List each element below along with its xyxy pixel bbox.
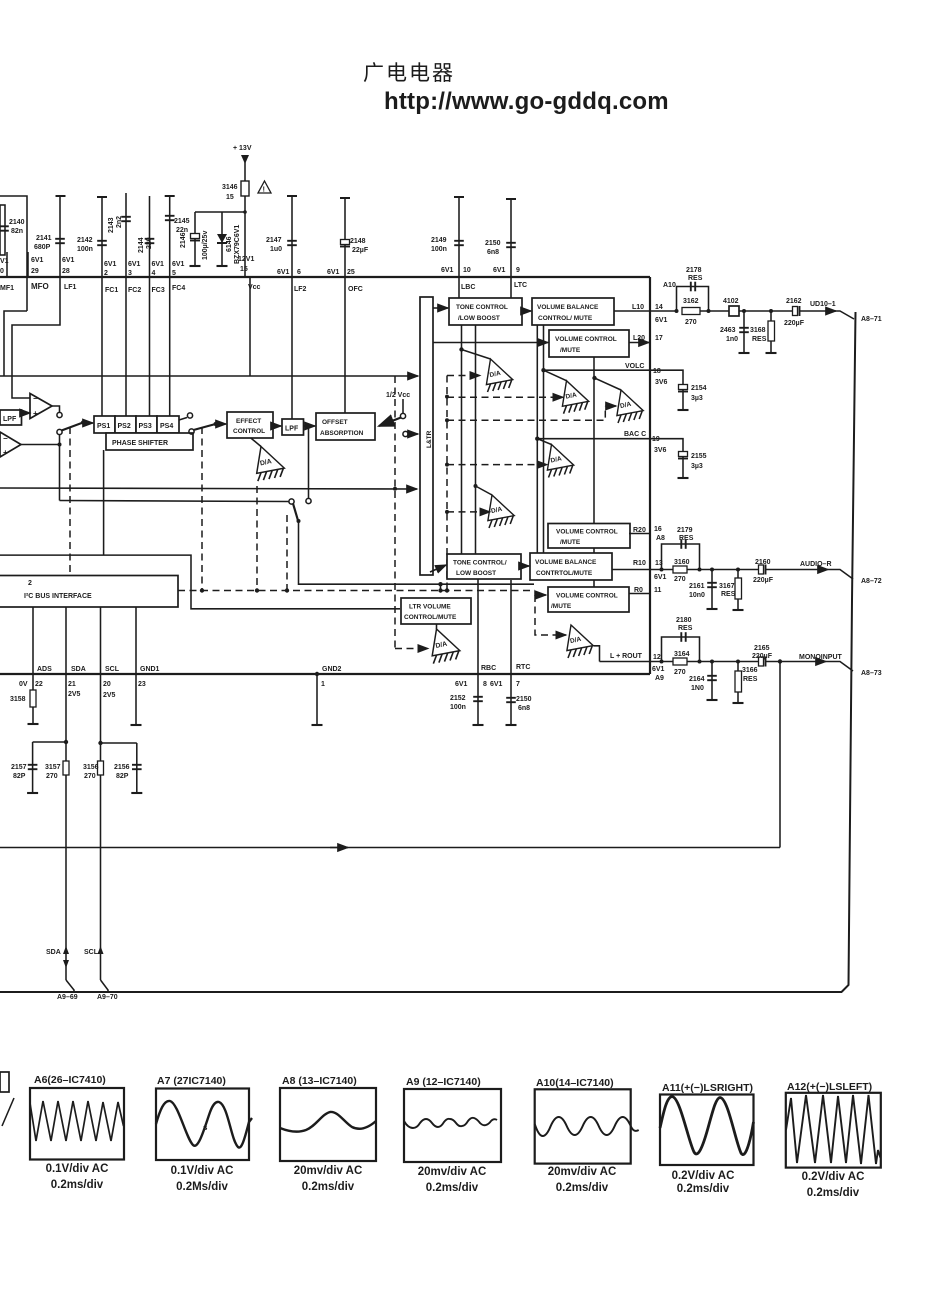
wire fc2 column to PS2 — [125, 277, 127, 416]
capacitor C2179 — [681, 539, 685, 549]
wire 2157 column — [32, 742, 34, 793]
svg-text:1n0: 1n0 — [726, 336, 738, 343]
svg-text:A8–73: A8–73 — [861, 670, 882, 677]
svg-text:0.2ms/div: 0.2ms/div — [556, 1182, 609, 1194]
matrix narrow box — [420, 297, 433, 575]
svg-text:6V1: 6V1 — [62, 257, 75, 264]
svg-text:CONTROL/ MUTE: CONTROL/ MUTE — [538, 315, 593, 322]
svg-text:RES: RES — [678, 625, 693, 632]
wire tee top 2150 — [506, 198, 516, 200]
ground gnd2 — [312, 724, 323, 726]
svg-text:0.1V/div AC: 0.1V/div AC — [171, 1165, 234, 1177]
sda arrows — [63, 946, 69, 954]
svg-text:3168: 3168 — [750, 327, 766, 334]
junction — [742, 309, 746, 313]
wire opamp2 out — [21, 444, 60, 446]
dashed vertical main — [446, 376, 448, 592]
svg-text:SDA: SDA — [71, 666, 86, 673]
junction — [445, 395, 449, 399]
svg-text:2179: 2179 — [677, 527, 693, 534]
wire fc3 column to PS3 — [149, 277, 151, 416]
svg-text:PHASE SHIFTER: PHASE SHIFTER — [112, 440, 168, 447]
scope A12 waveform triangle — [786, 1095, 881, 1164]
svg-text:3146: 3146 — [222, 184, 238, 191]
node pin2 column FC1 — [101, 197, 103, 277]
svg-text:680P: 680P — [34, 244, 51, 251]
svg-text:/MUTE: /MUTE — [551, 603, 572, 610]
svg-text:L10: L10 — [632, 304, 644, 311]
svg-text:VOLUME BALANCE: VOLUME BALANCE — [537, 304, 599, 311]
IC right edge — [649, 277, 651, 674]
svg-text:15: 15 — [226, 194, 234, 201]
wire to 4102 — [700, 310, 729, 312]
junction — [710, 568, 714, 572]
svg-text:6V1: 6V1 — [654, 574, 667, 581]
svg-text:3µ3: 3µ3 — [691, 463, 703, 470]
IC bottom edge — [0, 673, 650, 675]
capacitor C2146 electrolytic — [190, 234, 200, 241]
svg-text:2164: 2164 — [689, 676, 705, 683]
wire out UD10-1 — [800, 310, 836, 312]
capacitor C2142 — [97, 241, 107, 245]
left edge fragment slant — [2, 1098, 14, 1126]
svg-text:AUDIO–R: AUDIO–R — [800, 561, 832, 568]
svg-text:R20: R20 — [633, 527, 646, 534]
svg-text:6V1: 6V1 — [441, 267, 454, 274]
svg-text:2V5: 2V5 — [68, 691, 81, 698]
junction da2 — [541, 368, 545, 372]
wire scl column — [100, 607, 102, 980]
D/A 4 — [547, 445, 573, 478]
wire ps4 stub — [179, 418, 187, 421]
switch contact e — [306, 498, 311, 503]
node pin10 column LBC — [458, 197, 460, 277]
svg-text:A9: A9 — [655, 675, 664, 682]
svg-text:2162: 2162 — [786, 298, 802, 305]
svg-text:270: 270 — [46, 773, 58, 780]
svg-text:2143: 2143 — [108, 217, 115, 233]
switch lever 4 — [293, 504, 298, 521]
wire L+ROUT — [600, 661, 651, 663]
svg-text:OFC: OFC — [348, 286, 363, 293]
wire ofc col to offset — [344, 277, 346, 413]
svg-text:19: 19 — [652, 436, 660, 443]
svg-text:EFFECT: EFFECT — [236, 418, 261, 425]
svg-text:20: 20 — [103, 681, 111, 688]
svg-text:11: 11 — [654, 587, 662, 594]
junction — [660, 660, 664, 664]
svg-text:A7 (27IC7140): A7 (27IC7140) — [157, 1075, 226, 1087]
switch contact after PS4 — [187, 413, 192, 418]
node pin6 column LF2 — [291, 196, 293, 277]
svg-text:22µF: 22µF — [352, 247, 369, 254]
svg-text:9: 9 — [516, 267, 520, 274]
svg-text:2155: 2155 — [691, 453, 707, 460]
dashed into da7 — [395, 648, 428, 650]
svg-text:/MUTE: /MUTE — [560, 347, 581, 354]
wire effect to da6 — [251, 438, 261, 447]
feedback arrow — [330, 847, 348, 849]
wire down cap 2463 — [743, 311, 745, 353]
node pin29 column — [27, 252, 29, 277]
dashed into vc3 — [535, 591, 546, 596]
svg-text:2148: 2148 — [350, 238, 366, 245]
ground — [707, 699, 718, 701]
wire volc inside — [544, 369, 651, 371]
svg-text:A6(26–IC7410): A6(26–IC7410) — [34, 1074, 106, 1086]
junction — [736, 660, 740, 664]
wire contact d to matrix — [408, 433, 418, 435]
volume control mute box 2 — [548, 524, 630, 549]
wire lpf2 to offset — [304, 425, 316, 427]
wire parallel loop 2180 — [662, 637, 700, 662]
svg-text:82P: 82P — [13, 773, 26, 780]
svg-text:A11(+(−)LSRIGHT): A11(+(−)LSRIGHT) — [662, 1082, 753, 1094]
svg-text:FC3: FC3 — [152, 287, 165, 294]
wire vb2 to pin13 — [612, 569, 673, 571]
scope A9 box — [404, 1089, 501, 1162]
junction — [214, 422, 218, 426]
scl arrow — [98, 946, 104, 954]
wire parallel loop 2179 — [662, 544, 700, 570]
svg-text:MFO: MFO — [31, 282, 49, 291]
junction — [297, 519, 301, 523]
junction — [255, 588, 259, 592]
effect control box — [227, 412, 273, 438]
svg-text:2144: 2144 — [138, 237, 145, 253]
ground — [733, 702, 744, 704]
capacitor C2180 — [681, 632, 685, 642]
switch lever 2 — [194, 424, 216, 430]
wire down cap 2164 — [711, 662, 713, 701]
svg-text:LOW BOOST: LOW BOOST — [456, 570, 496, 577]
svg-text:3157: 3157 — [45, 764, 61, 771]
wire switch b down — [59, 435, 61, 501]
svg-text:L + ROUT: L + ROUT — [610, 653, 643, 660]
wire sda slant to bottom — [66, 980, 74, 992]
capacitor C2140 — [0, 226, 9, 230]
wire after loop — [687, 569, 758, 571]
svg-text:2141: 2141 — [36, 235, 52, 242]
capacitor C2141 — [55, 239, 65, 243]
svg-text:1/2 Vcc: 1/2 Vcc — [386, 392, 410, 399]
svg-text:82P: 82P — [116, 773, 129, 780]
svg-text:0.2V/div AC: 0.2V/div AC — [672, 1170, 735, 1182]
svg-text:RES: RES — [721, 591, 736, 598]
svg-text:LTR VOLUME: LTR VOLUME — [409, 604, 451, 611]
ground — [678, 477, 689, 479]
volume balance box 1 — [532, 298, 614, 325]
lpf box 1 — [0, 410, 22, 425]
wire rbc column — [477, 579, 479, 674]
svg-text:10: 10 — [463, 267, 471, 274]
junction — [778, 659, 782, 663]
wire tee top 2141 — [56, 195, 66, 197]
scope A10 box — [535, 1089, 631, 1163]
ground ads — [28, 723, 39, 725]
svg-text:/LOW BOOST: /LOW BOOST — [458, 315, 500, 322]
D/A 5 — [488, 495, 514, 528]
wire fc1 column to PS1 — [101, 277, 103, 416]
svg-text:14: 14 — [655, 304, 663, 311]
svg-text:6V1: 6V1 — [493, 267, 506, 274]
wire AR main vertical — [842, 312, 856, 992]
svg-text:3167: 3167 — [719, 583, 735, 590]
svg-text:3µ3: 3µ3 — [691, 395, 703, 402]
wire ltr to da7 — [436, 624, 438, 629]
junction — [698, 660, 702, 664]
capacitor C2140 box — [0, 205, 5, 255]
svg-text:2V5: 2V5 — [103, 692, 116, 699]
capacitor C2157 — [28, 765, 38, 769]
svg-text:A8: A8 — [656, 535, 665, 542]
svg-text:UD10–1: UD10–1 — [810, 301, 836, 308]
scope A9 waveform ripple — [404, 1118, 497, 1128]
svg-text:25: 25 — [347, 269, 355, 276]
svg-text:广电电器: 广电电器 — [363, 62, 455, 85]
I2C bus interface box — [0, 576, 178, 608]
svg-text:FC2: FC2 — [128, 287, 141, 294]
scope A10 waveform ripple — [535, 1117, 639, 1136]
svg-text:2149: 2149 — [431, 237, 447, 244]
wire half vcc stub — [402, 399, 404, 414]
svg-text:3162: 3162 — [683, 298, 699, 305]
ground 2156 — [131, 792, 142, 794]
svg-text:2145: 2145 — [174, 218, 190, 225]
svg-text:20mv/div AC: 20mv/div AC — [418, 1166, 487, 1178]
scope A7 waveform sine — [156, 1101, 252, 1148]
svg-text:7: 7 — [516, 681, 520, 688]
svg-text:270: 270 — [84, 773, 96, 780]
svg-text:I²C BUS INTERFACE: I²C BUS INTERFACE — [24, 593, 92, 600]
wire tee top 2147 — [287, 195, 297, 197]
svg-text:GND1: GND1 — [140, 666, 160, 673]
ground 2146 — [190, 265, 201, 267]
wire box top — [0, 196, 27, 311]
svg-text:100n: 100n — [450, 704, 466, 711]
wire scl slant to bottom — [101, 980, 109, 992]
scope A6 box — [30, 1088, 124, 1160]
svg-text:CONTROL: CONTROL — [233, 428, 265, 435]
capacitor C2152 — [473, 697, 483, 701]
phase shifter label box — [106, 433, 193, 450]
wire bottom long line — [0, 991, 842, 993]
svg-text:3166: 3166 — [742, 667, 758, 674]
junction — [769, 309, 773, 313]
svg-text:MONOINPUT: MONOINPUT — [799, 654, 843, 661]
svg-text:4102: 4102 — [723, 298, 739, 305]
svg-text:6V1: 6V1 — [652, 666, 665, 673]
svg-text:12: 12 — [653, 654, 661, 661]
svg-text:21: 21 — [68, 681, 76, 688]
dashed vertical left d — [286, 515, 288, 590]
ground gnd1 — [131, 724, 142, 726]
svg-text:BAC C: BAC C — [624, 431, 646, 438]
svg-text:!: ! — [263, 185, 266, 194]
junction — [445, 510, 449, 514]
wire lf1 column down to opamp — [12, 277, 60, 398]
svg-text:LF2: LF2 — [294, 286, 307, 293]
svg-text:SCL: SCL — [105, 666, 120, 673]
svg-text:LTC: LTC — [514, 282, 527, 289]
svg-text:220: 220 — [146, 237, 153, 249]
wire pin12 out — [650, 661, 673, 663]
svg-text:0.2ms/div: 0.2ms/div — [807, 1187, 860, 1199]
wire effect to lpf2 — [273, 425, 281, 427]
capacitor C2178 — [691, 282, 695, 292]
svg-text:PS3: PS3 — [139, 423, 152, 430]
wire long to switch2 — [60, 501, 290, 502]
wire matrix to vc1 — [433, 342, 548, 344]
scope A8 box — [280, 1088, 376, 1161]
wire ads stub — [32, 707, 34, 724]
capacitor C2145 — [165, 216, 175, 220]
svg-text:s: s — [203, 1123, 208, 1132]
ground rtc — [506, 724, 517, 726]
ltr volume box — [401, 598, 471, 624]
svg-text:RBC: RBC — [481, 665, 496, 672]
wire fc4 column to PS4 — [169, 277, 171, 416]
svg-text:2150: 2150 — [485, 240, 501, 247]
op-amp U2 — [0, 432, 21, 457]
offset absorption box — [316, 413, 375, 440]
svg-text:ABSORPTION: ABSORPTION — [320, 430, 364, 437]
svg-text:MF1: MF1 — [0, 285, 14, 292]
junction — [445, 463, 449, 467]
svg-text:23: 23 — [138, 681, 146, 688]
scope A7 box — [156, 1089, 249, 1161]
svg-text:270: 270 — [685, 319, 697, 326]
capacitor C2156 — [132, 765, 142, 769]
switch contact after PS4 b — [189, 429, 194, 434]
capacitor C2164 — [707, 676, 717, 680]
svg-text:2140: 2140 — [9, 219, 25, 226]
wire to da3 — [595, 378, 622, 390]
wire +13V column — [244, 162, 246, 277]
svg-text:−: − — [3, 434, 8, 443]
svg-text:6V1: 6V1 — [31, 257, 44, 264]
svg-text:100n: 100n — [77, 246, 93, 253]
svg-text:VOLUME CONTROL: VOLUME CONTROL — [556, 529, 618, 536]
svg-text:A10: A10 — [663, 282, 676, 289]
svg-text:LPF: LPF — [3, 416, 17, 423]
D/A 2 — [562, 381, 588, 414]
resistor R3146 — [241, 181, 249, 196]
svg-text:6n8: 6n8 — [487, 249, 499, 256]
svg-text:PS4: PS4 — [160, 423, 173, 430]
svg-text:RES: RES — [743, 676, 758, 683]
capacitor C2147 — [287, 241, 297, 245]
wire vcc col down — [249, 277, 251, 376]
svg-text:2146: 2146 — [180, 232, 187, 248]
svg-text:0.2Ms/div: 0.2Ms/div — [176, 1181, 228, 1193]
node 2146 column — [194, 212, 196, 266]
dashed vertical left b — [201, 427, 203, 590]
svg-text:RES: RES — [679, 535, 694, 542]
svg-text:3V6: 3V6 — [655, 379, 668, 386]
D/A 1 — [486, 359, 512, 392]
svg-text:2165: 2165 — [754, 645, 770, 652]
scope A8 waveform gentle — [280, 1112, 376, 1132]
wire tone2 to vb2 — [521, 565, 529, 567]
svg-text:TONE CONTROL: TONE CONTROL — [456, 304, 508, 311]
volume control mute box 1 — [549, 330, 629, 357]
junction — [707, 309, 711, 313]
capacitor C2154 electrolytic — [678, 385, 688, 392]
wire gnd2 stub — [316, 674, 318, 725]
svg-text:VOLC: VOLC — [625, 363, 644, 370]
ground rbc — [473, 724, 484, 726]
svg-text:220µF: 220µF — [752, 653, 773, 660]
wire slant to AR column — [830, 311, 854, 319]
wire pin18 out — [650, 370, 683, 410]
svg-text:2: 2 — [28, 580, 32, 587]
svg-text:FC4: FC4 — [172, 285, 185, 292]
capacitor C2144 — [145, 239, 155, 243]
wire bracket 2157-3157 — [33, 741, 66, 743]
svg-text:0.2ms/div: 0.2ms/div — [426, 1182, 479, 1194]
svg-text:2160: 2160 — [755, 559, 771, 566]
svg-text:0.2V/div AC: 0.2V/div AC — [802, 1171, 865, 1183]
svg-text:28: 28 — [62, 268, 70, 275]
svg-text:20mv/div AC: 20mv/div AC — [548, 1166, 617, 1178]
wire slant to AR column — [826, 662, 853, 672]
switch contact f — [289, 499, 294, 504]
junction — [445, 418, 449, 422]
svg-text:RES: RES — [688, 275, 703, 282]
svg-text:FC1: FC1 — [105, 287, 118, 294]
PS2 box — [115, 416, 136, 433]
dashed to da4 — [447, 464, 547, 466]
wire col below vb1 — [536, 325, 538, 553]
node pin25 column OFC — [344, 198, 346, 277]
wire rbc stub — [477, 674, 479, 725]
svg-text:2142: 2142 — [77, 237, 93, 244]
capacitor C2148 electrolytic — [340, 240, 350, 247]
svg-text:2152: 2152 — [450, 695, 466, 702]
wire opamp1 out — [52, 406, 60, 412]
wire matrix to tone1 — [433, 307, 448, 309]
capacitor C2161 — [707, 583, 717, 587]
junction — [98, 741, 102, 745]
svg-text:VOLUME BALANCE: VOLUME BALANCE — [535, 559, 597, 566]
wire after 4102 — [739, 310, 795, 312]
capacitor C2149 — [454, 241, 464, 245]
scope A6 waveform sawtooth — [30, 1101, 124, 1141]
switch lever 3 into offset — [379, 418, 401, 427]
wire internal h line 2 — [0, 488, 417, 489]
junction da4 — [535, 437, 539, 441]
wire down res 3166 — [737, 662, 739, 704]
svg-text:6146: 6146 — [226, 236, 233, 252]
wire to da1 — [462, 350, 491, 360]
svg-text:6V1: 6V1 — [277, 269, 290, 276]
volume control mute box 3 — [548, 587, 629, 612]
svg-text:PS1: PS1 — [97, 423, 110, 430]
svg-text:+ 13V: + 13V — [233, 145, 252, 152]
D/A 8 — [567, 625, 593, 658]
tone control low boost box 2 — [447, 554, 521, 579]
svg-text:R10: R10 — [633, 560, 646, 567]
svg-text:270: 270 — [674, 576, 686, 583]
wire tee top 2142 — [97, 196, 107, 198]
left edge fragment box — [0, 1072, 9, 1092]
capacitor C2165 electrolytic — [759, 657, 766, 667]
wire lpf2 node down to contact — [308, 426, 310, 498]
svg-text:0: 0 — [0, 268, 4, 275]
wire vc1 to pin17 — [629, 342, 649, 344]
svg-text:A9 (12–IC7140): A9 (12–IC7140) — [406, 1076, 481, 1088]
